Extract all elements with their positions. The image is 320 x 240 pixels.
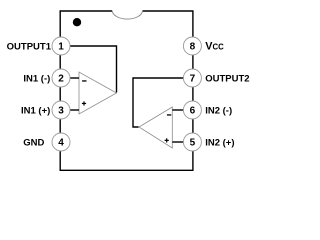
svg-text:7: 7 [190, 74, 196, 85]
svg-text:6: 6 [190, 106, 196, 117]
svg-text:4: 4 [58, 138, 64, 149]
svg-text:3: 3 [58, 106, 64, 117]
svg-text:IN1 (+): IN1 (+) [21, 105, 50, 116]
svg-text:8: 8 [190, 42, 196, 53]
svg-text:VCC: VCC [205, 40, 224, 52]
svg-text:IN2 (+): IN2 (+) [205, 137, 234, 148]
svg-text:GND: GND [23, 137, 44, 148]
svg-text:OUTPUT2: OUTPUT2 [205, 73, 249, 84]
svg-text:2: 2 [58, 74, 64, 85]
svg-text:OUTPUT1: OUTPUT1 [7, 41, 52, 52]
svg-text:IN1 (-): IN1 (-) [23, 73, 50, 84]
svg-text:IN2 (-): IN2 (-) [205, 105, 232, 116]
svg-text:1: 1 [58, 42, 64, 53]
svg-text:5: 5 [190, 138, 196, 149]
